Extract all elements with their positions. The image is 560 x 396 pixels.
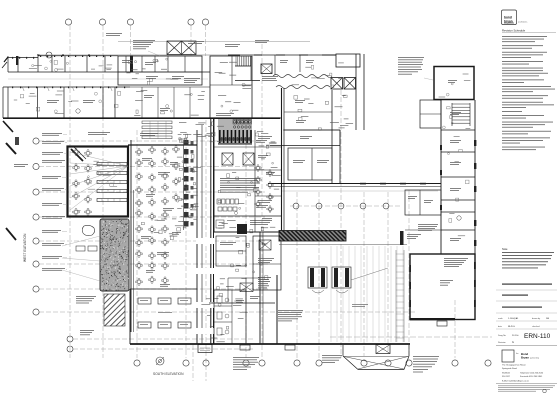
- annotation below south wall left: [233, 356, 259, 359]
- project title: [502, 284, 552, 285]
- dark post right of band: [400, 231, 404, 245]
- pier symbol 1: [308, 267, 327, 288]
- small stage rects: [76, 246, 85, 251]
- vertical grid lines: [69, 25, 71, 358]
- top grid stub lines: [130, 25, 132, 58]
- wavy existing wall upper: [273, 75, 332, 78]
- annotation near hatch: [76, 295, 96, 298]
- svg-text:SOUTH ELEVATION: SOUTH ELEVATION: [153, 372, 184, 376]
- hall bottom wall: [67, 216, 100, 218]
- svg-text:Sheffield: Sheffield: [502, 373, 510, 375]
- svg-text:The Grangegorman House: The Grangegorman House: [502, 365, 527, 367]
- rooms west of east wing: [405, 190, 441, 215]
- svg-text:bryan: bryan: [504, 19, 513, 23]
- corridor door gaps: [196, 238, 215, 244]
- rooms between entrance and kitchen: [130, 86, 210, 88]
- retaining wall hatched band: [279, 231, 346, 242]
- entrance block: [118, 56, 202, 85]
- top annotations: [133, 39, 155, 42]
- annotation right of funnel: [413, 355, 439, 358]
- kitchen equipment rows: [217, 199, 221, 204]
- svg-text:architects: architects: [518, 21, 528, 24]
- svg-text:Revision: Revision: [498, 342, 506, 344]
- detail clutter servery strip: [179, 198, 182, 200]
- stair in toilet block: [235, 57, 237, 67]
- rooms east of corridor with X table: [253, 236, 281, 290]
- dining hall thick walls: [68, 147, 129, 217]
- rooms south of kitchen: [214, 231, 281, 233]
- west edge stair mark upper: [3, 121, 13, 132]
- paragraph in open space: [278, 309, 303, 312]
- north range top row of rooms: [8, 57, 38, 59]
- crossed table room: [228, 277, 260, 279]
- piano shape: [82, 225, 94, 235]
- pier symbol 2: [332, 267, 351, 288]
- entrance dark wall bar: [130, 56, 133, 73]
- corner block top right: [336, 54, 360, 67]
- svg-text:DB: DB: [546, 318, 550, 320]
- registration glyph: [543, 389, 547, 393]
- SE common room: [410, 254, 475, 320]
- label accommodation wing: [14, 163, 28, 166]
- stair diagonal west: [6, 143, 16, 154]
- svg-text:partnership: partnership: [530, 357, 539, 360]
- top rooms east: [274, 55, 276, 75]
- door swings row2: [20, 87, 24, 91]
- svg-text:Bryan: Bryan: [521, 356, 529, 360]
- kitchen lower fixtures: [250, 219, 272, 222]
- west wall lower: [130, 140, 132, 332]
- upper wing big room: [270, 145, 340, 147]
- hall corner diagonal element: [71, 149, 83, 161]
- annotation mid west: [88, 131, 110, 134]
- corridor line north range: [8, 78, 208, 80]
- note paragraph: [502, 251, 554, 254]
- labels right kitchen strip: [256, 139, 267, 142]
- garden room: [130, 288, 197, 290]
- south wall main: [130, 343, 410, 345]
- class room bubble: [76, 109, 80, 113]
- entrance funnel: [342, 345, 344, 356]
- entrance canopy with X bracing: [167, 41, 196, 55]
- horizontal grid lines with bubbles (west side): [39, 140, 262, 142]
- SE corner wall near funnel: [276, 275, 278, 344]
- svg-text:Note: Note: [502, 247, 508, 251]
- svg-text:1:100@A1: 1:100@A1: [508, 317, 519, 320]
- right rooms of kitchen band: [254, 130, 256, 232]
- detail clutter east block rooms: [292, 84, 299, 87]
- window ticks row1 top wall: [40, 55, 41, 57]
- room east of small rooms: [245, 278, 247, 302]
- wall below band: [279, 244, 407, 246]
- top grid bubbles: [65, 19, 71, 25]
- svg-text:RL/DG: RL/DG: [508, 326, 515, 328]
- detail clutter band above hall: [196, 123, 205, 126]
- grid lines J K bottom-left: [73, 338, 255, 340]
- detail clutter south kitchen rooms: [253, 271, 255, 273]
- wc pans: [221, 137, 223, 141]
- entrance lower labels: [146, 75, 158, 78]
- west end wall detail: [16, 56, 19, 65]
- lower logo box: [502, 350, 514, 362]
- svg-text:Revision Schedule: Revision Schedule: [502, 29, 526, 33]
- thick south wall of north range: [3, 117, 280, 119]
- svg-text:E-Mail mail@bondbryan.co.uk: E-Mail mail@bondbryan.co.uk: [502, 381, 529, 383]
- window grey segments on north wall: [240, 54, 254, 56]
- SE room window marks: [409, 265, 411, 272]
- interior grid bubble row: [293, 203, 299, 209]
- SE thick south wall: [410, 318, 455, 320]
- kitchen east thick wall: [281, 88, 283, 232]
- room label CLS RM 1: [47, 99, 59, 102]
- north range second row of rooms: [3, 86, 130, 88]
- wc stall dividers: [219, 130, 221, 143]
- room label CLS RM 2: [83, 99, 95, 102]
- detail clutter hall interior: [98, 172, 101, 175]
- detail clutter east wing: [458, 235, 465, 238]
- window ticks row2 top wall: [12, 86, 13, 88]
- grid line H with bubble: [38, 54, 300, 56]
- servery flowers right: [256, 166, 260, 170]
- cafe offices: [288, 148, 332, 180]
- small rooms bottom middle: [214, 290, 246, 344]
- east wing rooms: [440, 100, 442, 254]
- toilet room textured block: [218, 119, 252, 144]
- corridor walls center: [196, 130, 198, 344]
- detail clutter kitchen: [272, 174, 281, 177]
- basin row 2: [233, 126, 235, 128]
- diagonal leaders to servery block: [62, 236, 100, 246]
- copyright fine print: [498, 385, 555, 388]
- dining furniture flower symbols: [74, 150, 78, 154]
- rooms below east block: [284, 111, 332, 113]
- wavy existing wall lower: [276, 86, 330, 89]
- porch below garden room: [198, 345, 212, 353]
- dark store room: [237, 224, 247, 234]
- servery stipple block: [100, 219, 129, 291]
- text left of SE room: [418, 223, 438, 226]
- bond bryan logo box: [502, 10, 517, 25]
- svg-text:S10 1BT: S10 1BT: [502, 376, 511, 378]
- revision schedule entries: [502, 35, 547, 38]
- east wing room labels: [450, 111, 461, 114]
- grid line y=337: [330, 336, 492, 338]
- corridor double wall east upper: [355, 54, 357, 130]
- svg-text:Drwg No: Drwg No: [498, 335, 507, 337]
- lift shaft 1: [331, 78, 343, 90]
- servery fixtures west of corridor: [184, 140, 189, 146]
- hall east wall pair: [259, 232, 261, 344]
- menu text list: [258, 276, 271, 279]
- detail clutter north range rooms: [34, 64, 42, 67]
- long south wall of upper wing: [268, 183, 441, 185]
- detail clutter NE room: [463, 73, 469, 76]
- thin line below south wall of upper wing: [281, 190, 438, 192]
- bottom grid bubbles: [134, 360, 140, 366]
- svg-text:Telephone 0114 266 2040: Telephone 0114 266 2040: [520, 373, 544, 375]
- dining hall long tables: [97, 163, 127, 166]
- toilet block: [210, 56, 252, 118]
- long wall y=303: [209, 302, 275, 304]
- svg-text:20 1St: 20 1St: [512, 334, 519, 337]
- svg-text:G: G: [512, 341, 514, 344]
- NE large room: [434, 67, 474, 100]
- timber decking lines: [330, 246, 332, 342]
- svg-text:ERN-110: ERN-110: [524, 333, 551, 340]
- detail clutter toilet block: [229, 74, 236, 77]
- entrance inner labels: [122, 59, 132, 62]
- leader to piers: [351, 268, 388, 280]
- east wing window marks: [474, 140, 476, 146]
- detail clutter kitchen upper-right: [272, 162, 274, 164]
- lift X-box near toilet block: [261, 64, 272, 74]
- kitchen block outline: [214, 118, 282, 232]
- svg-text:the: the: [516, 352, 519, 355]
- dimension line above entrance: [118, 41, 310, 43]
- ramp with diagonal hatch: [104, 294, 125, 326]
- north wall continuation east: [228, 54, 336, 56]
- wall from kitchen corner to zigzag: [263, 231, 279, 233]
- gate box with X: [376, 345, 390, 354]
- lower west stair diagonal: [6, 228, 16, 240]
- garden room tables: [138, 298, 151, 304]
- annotation above toilet block: [255, 39, 269, 42]
- small rooms west of NE stair: [420, 100, 441, 128]
- left margin annotations: [42, 132, 62, 135]
- svg-text:Facsimile 0114 266 5801: Facsimile 0114 266 5801: [520, 376, 543, 378]
- text inside SE wing top: [444, 257, 468, 260]
- tables band above hall: [142, 121, 172, 124]
- kitchen equipment X boxes: [222, 153, 233, 165]
- basin row 1: [233, 120, 236, 125]
- svg-text:checked: checked: [532, 326, 539, 328]
- detail clutter entrance: [147, 81, 149, 85]
- detail clutter rooms row: [184, 94, 191, 97]
- terrace stair ladder: [395, 250, 397, 342]
- tab below SE wall: [437, 321, 447, 326]
- window marks on south wall: [360, 183, 366, 185]
- wall from hall to corridor: [128, 144, 197, 146]
- detail clutter below hall: [172, 218, 176, 221]
- labels within dining furniture zone: [142, 157, 152, 160]
- kitchen spec text: [220, 177, 260, 180]
- note paragraph west of NE room: [398, 56, 424, 59]
- detail clutter bottom corridor rooms: [206, 298, 210, 301]
- svg-text:Springside Road: Springside Road: [502, 368, 517, 370]
- annotation below funnel left: [322, 354, 342, 357]
- lift shaft 2: [344, 78, 356, 90]
- NE stair: [452, 103, 470, 105]
- window tabs below south wall: [240, 345, 250, 350]
- fan of leader lines: [70, 152, 128, 166]
- datum marker: [156, 357, 164, 365]
- svg-text:WEST ELEVATION: WEST ELEVATION: [23, 233, 27, 262]
- svg-text:drawn by: drawn by: [532, 318, 540, 320]
- detail clutter east rooms: [330, 121, 339, 124]
